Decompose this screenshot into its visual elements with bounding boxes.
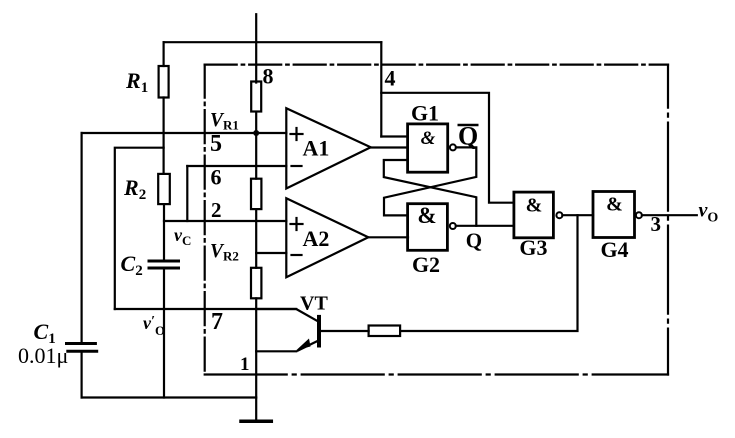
- label Q overbar: [458, 124, 479, 127]
- svg-text:0.01μ: 0.01μ: [18, 343, 68, 368]
- wire VCC top rail: [164, 41, 382, 43]
- svg-text:A1: A1: [303, 136, 330, 161]
- IC boundary dash-dot box left edge: [204, 65, 206, 375]
- svg-text:G4: G4: [600, 237, 628, 262]
- wire pin 6 line: [187, 165, 286, 167]
- wire pin4 branch to G3: [381, 93, 514, 203]
- wire A2 out to G2: [368, 236, 408, 238]
- gate G2: [408, 204, 448, 251]
- svg-text:G2: G2: [412, 252, 440, 277]
- VT collector: [256, 309, 318, 322]
- G3 output bubble: [556, 212, 562, 218]
- ground bar: [241, 419, 271, 423]
- svg-text:5: 5: [210, 131, 222, 157]
- svg-text:8: 8: [263, 64, 274, 89]
- IC boundary dash-dot box right edge: [667, 65, 669, 375]
- wire pin 5 line: [82, 132, 287, 134]
- junction dot VR1 node: [253, 130, 259, 136]
- G2 output bubble: [450, 223, 456, 229]
- IC boundary dash-dot box top edge: [205, 63, 668, 65]
- resistor R2: [158, 174, 170, 204]
- wire pin6 to pin2 tie: [186, 166, 188, 221]
- svg-text:VT: VT: [300, 293, 328, 315]
- wire VR2 tap to A2: [256, 252, 286, 254]
- wire G3 to G4: [562, 214, 593, 216]
- svg-text:&: &: [421, 128, 436, 149]
- wire C1 column lower: [80, 353, 82, 398]
- wire A1 out to G1: [371, 146, 408, 148]
- wire base resistor to VT base: [320, 330, 369, 332]
- VT emitter arrow: [297, 339, 311, 351]
- wire R1 top: [163, 42, 165, 66]
- op-amp A2: [286, 198, 368, 277]
- wire pin 2 line (vC): [164, 220, 286, 222]
- G4 output bubble: [636, 212, 642, 218]
- svg-text:6: 6: [211, 165, 222, 190]
- svg-text:A2: A2: [303, 226, 330, 251]
- wire divider upper: [255, 113, 257, 179]
- wire pin 4 vertical: [380, 42, 382, 136]
- resistor divider middle: [251, 179, 261, 209]
- svg-text:&: &: [417, 203, 436, 228]
- gate G4: [593, 192, 635, 238]
- svg-text:Q: Q: [466, 228, 482, 252]
- wire bottom rail: [82, 396, 257, 398]
- wire pin4 into G1: [381, 135, 407, 137]
- capacitor C2: [149, 260, 179, 263]
- capacitor C1: [67, 342, 96, 345]
- svg-text:7: 7: [211, 309, 223, 335]
- VT emitter: [298, 341, 318, 351]
- wire G1 out feedback to G2: [384, 147, 476, 215]
- G1 output bubble: [450, 144, 456, 150]
- wire divider middle-lower: [255, 209, 257, 268]
- svg-text:&: &: [606, 194, 623, 216]
- svg-text:G3: G3: [519, 235, 547, 260]
- svg-text:&: &: [526, 195, 543, 217]
- wire C1 column upper: [80, 133, 82, 342]
- svg-text:G1: G1: [411, 101, 439, 126]
- wire VCC stub: [255, 14, 257, 82]
- wire pin 7 discharge line: [115, 308, 296, 310]
- wire G3 out down to base resistor: [400, 215, 577, 331]
- resistor base: [369, 326, 401, 337]
- transistor VT: [317, 317, 321, 346]
- wire pin7 branch from R1-R2 junction: [115, 148, 164, 309]
- wire R2 bottom down to C2: [163, 204, 165, 259]
- svg-text:2: 2: [211, 198, 222, 222]
- svg-text:4: 4: [385, 66, 396, 91]
- resistor R1: [159, 66, 169, 98]
- wire G2 out feedback to G1: [384, 160, 477, 226]
- op-amp A1: [286, 108, 370, 188]
- resistor divider bottom: [251, 268, 261, 299]
- gate G1: [408, 124, 448, 172]
- wire R1 bottom to R2 top: [163, 98, 165, 174]
- wire Q line G2 to G3: [456, 225, 514, 227]
- resistor divider top (pin 8): [251, 82, 261, 112]
- svg-text:3: 3: [651, 212, 662, 236]
- wire divider bottom to ground: [255, 298, 257, 421]
- IC boundary dash-dot box bottom edge: [205, 373, 668, 375]
- gate G3: [514, 192, 554, 238]
- svg-text:1: 1: [240, 354, 250, 375]
- wire output vO: [642, 214, 697, 216]
- wire C2 bottom column: [163, 270, 165, 398]
